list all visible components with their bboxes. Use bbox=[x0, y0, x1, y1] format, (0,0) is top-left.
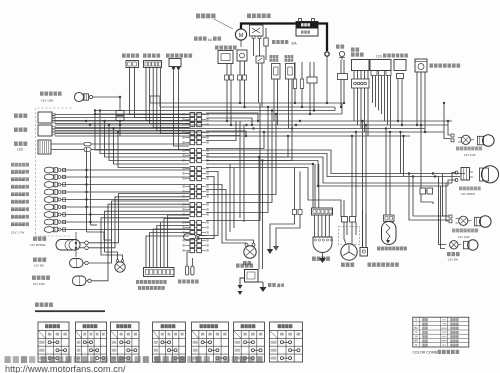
label: fuse box 2 bbox=[285, 55, 294, 62]
left rear turn lamp bbox=[449, 215, 491, 227]
label: ground (frame) bbox=[268, 283, 284, 288]
inline diodes bbox=[51, 142, 190, 151]
indicator lamp: gear bbox=[11, 215, 61, 227]
wire feeds horn right bbox=[240, 121, 244, 222]
indicator lamp: rpm bbox=[11, 222, 61, 234]
wire thick starter/battery cable bbox=[241, 24, 327, 52]
turn indicator relay bbox=[415, 59, 427, 132]
label: front brake switch bbox=[166, 54, 192, 58]
wire lamp8 to connector column bbox=[61, 220, 190, 223]
fuse box 2 bbox=[286, 64, 295, 133]
label: fuse box 1 bbox=[270, 55, 279, 62]
label: ignition coil bbox=[236, 264, 253, 268]
wire position lamp bbox=[88, 201, 189, 263]
svg-text:LED: LED bbox=[17, 148, 24, 152]
label: left rear turn lamp bbox=[452, 229, 478, 240]
starter motor M bbox=[235, 29, 246, 47]
label: COLOR COMB bbox=[413, 350, 460, 355]
wire relay pins down bbox=[254, 39, 260, 57]
wire bus upper loop bbox=[95, 96, 342, 114]
wire lamp2 to connector column bbox=[61, 175, 190, 178]
label: headlight bbox=[30, 237, 46, 248]
label: licheng-biao (speedometer) bbox=[14, 114, 27, 118]
headlight bbox=[56, 232, 88, 257]
position lamp bbox=[70, 259, 89, 268]
wire lamp7 to connector column bbox=[61, 213, 190, 216]
svg-text:12V 21W: 12V 21W bbox=[33, 282, 45, 286]
wire lamp5 to connector column bbox=[61, 198, 190, 201]
svg-text:B: B bbox=[415, 343, 417, 347]
label: kaiguan (switch) bbox=[336, 45, 344, 49]
switch table: ignition switch bbox=[38, 322, 69, 362]
connector block right of fuses bbox=[307, 62, 317, 114]
wires from CDI bbox=[373, 76, 391, 129]
wire feeds gear switch bbox=[315, 164, 319, 208]
wire feeds magneto/pulse bbox=[344, 121, 366, 248]
svg-text:BR/W: BR/W bbox=[441, 341, 448, 343]
handlebar switch connector bbox=[144, 268, 175, 277]
switch table: pass switch bbox=[270, 322, 303, 362]
wires headlight bbox=[88, 194, 189, 248]
svg-text:M: M bbox=[239, 33, 243, 39]
wire lamp6 to connector column bbox=[61, 205, 190, 208]
wire lamp4 to connector column bbox=[61, 190, 190, 193]
label: turn signal relay bbox=[383, 54, 408, 58]
watermark url bbox=[5, 364, 126, 373]
svg-text:12V 21W: 12V 21W bbox=[464, 153, 476, 157]
label: right rear turn lamp bbox=[456, 147, 482, 158]
label: jifei 6A switch bbox=[194, 37, 221, 43]
fuse box 1 bbox=[272, 64, 281, 126]
label: ignition pulse generator bbox=[368, 263, 399, 267]
brake tail lamp bbox=[455, 166, 499, 183]
label: turn/dimmer/pass/horn switch bbox=[136, 280, 167, 290]
wire junctions bbox=[75, 96, 449, 249]
small switch symbol bbox=[338, 51, 348, 107]
wire lamp9 to connector column bbox=[61, 228, 190, 231]
wire bus drops to left fan bbox=[95, 111, 189, 168]
label: yibiao-deng LED (meter lamps) bbox=[14, 142, 27, 152]
svg-text:12V 5W: 12V 5W bbox=[448, 258, 458, 262]
fuel sensor unit bbox=[218, 51, 234, 126]
svg-text:G: G bbox=[415, 317, 417, 321]
svg-text:BR: BR bbox=[414, 339, 418, 343]
dashed instrument cluster outline bbox=[36, 108, 72, 236]
label: fuel sensor unit bbox=[215, 46, 237, 50]
turn signal relay bbox=[394, 60, 406, 126]
wire left vertical bus bbox=[87, 148, 113, 240]
watermark line 1 bbox=[5, 356, 263, 363]
gear position switch bbox=[313, 215, 333, 253]
main key switch bbox=[237, 50, 247, 107]
wires horn left bbox=[101, 211, 189, 259]
switch table: kill switch bbox=[76, 322, 107, 362]
cable ring terminal bbox=[325, 52, 329, 103]
wire feeds ignition coil bbox=[249, 157, 263, 269]
small pilot lamp bbox=[184, 234, 207, 240]
indicator lamp: temp bbox=[11, 207, 61, 219]
wires speedometer bbox=[55, 115, 190, 124]
ignition pulse generator bbox=[360, 210, 368, 256]
svg-text:G/Y: G/Y bbox=[442, 319, 446, 321]
svg-text:BU/W: BU/W bbox=[441, 328, 448, 330]
wire bus main harness bbox=[55, 121, 452, 136]
connector 2P center-bottom bbox=[270, 168, 302, 250]
indicator lamp: right turn bbox=[11, 185, 61, 197]
svg-text:30A: 30A bbox=[291, 42, 298, 46]
license plate lamp bbox=[450, 240, 478, 250]
meter lamp unit bbox=[38, 140, 51, 154]
wire from left front turn lamp bbox=[93, 97, 120, 111]
switch table: starter switch bbox=[111, 322, 140, 362]
svg-text:12V 5W: 12V 5W bbox=[34, 264, 44, 268]
label: dianhuo switch bbox=[122, 54, 139, 58]
svg-text:Y/R: Y/R bbox=[442, 324, 446, 326]
battery bbox=[296, 19, 318, 37]
label: regulator rectifier bbox=[351, 48, 364, 57]
svg-text:O: O bbox=[415, 330, 417, 334]
ignition coil bbox=[238, 270, 259, 296]
regulator rectifier bbox=[352, 60, 370, 89]
label: turn indicator relay bbox=[430, 64, 461, 68]
wires from rectifier bbox=[354, 88, 368, 136]
indicator lamp: neutral bbox=[11, 177, 61, 189]
svg-text:12V 10W: 12V 10W bbox=[41, 99, 54, 103]
svg-text:B/Y: B/Y bbox=[443, 345, 447, 347]
label: qidong switch bbox=[143, 54, 160, 58]
fuel meter bbox=[38, 125, 55, 136]
clutch switch bbox=[186, 252, 195, 275]
wires from ignition switch bbox=[130, 68, 190, 118]
indicator lamp: high beam bbox=[11, 163, 61, 175]
wires from brake switch bbox=[174, 71, 190, 150]
svg-text:Y: Y bbox=[415, 322, 417, 326]
inline connector 2P bbox=[116, 111, 124, 137]
svg-text:12V 21W: 12V 21W bbox=[458, 235, 470, 239]
wire feeds side sensor bbox=[386, 129, 390, 216]
wire column to handlebar connector bbox=[146, 215, 189, 268]
starter relay bbox=[250, 25, 264, 39]
wire column to right risers bbox=[202, 103, 293, 243]
ignition switch connector bbox=[126, 61, 139, 68]
indicator lamp: fuel bbox=[11, 200, 61, 212]
front left small turn lamp bbox=[73, 276, 92, 286]
right rear turn lamp bbox=[451, 134, 494, 146]
svg-text:W/G: W/G bbox=[442, 336, 447, 338]
starter switch connector bbox=[144, 61, 162, 68]
label: qidong-jidianqi (starter relay) bbox=[247, 14, 271, 19]
svg-text:12V 18/5W: 12V 18/5W bbox=[461, 192, 475, 196]
wires fuel meter bbox=[55, 128, 190, 134]
color code table bbox=[413, 317, 469, 347]
main fuse 30A bbox=[264, 28, 298, 60]
label: horn bbox=[243, 261, 251, 265]
fuse pair bbox=[293, 62, 303, 107]
svg-text:12V 1.7W: 12V 1.7W bbox=[11, 230, 24, 234]
horn right bbox=[244, 243, 256, 258]
indicator lamp: left turn bbox=[11, 170, 61, 182]
label: gear switch bbox=[312, 257, 330, 261]
CDI unit bbox=[370, 55, 391, 76]
wire tail lamp feeds bbox=[448, 173, 460, 187]
svg-text:CDI: CDI bbox=[376, 55, 382, 59]
speedometer bbox=[38, 112, 55, 123]
svg-text:http://www.motorfans.com.cn/: http://www.motorfans.com.cn/ bbox=[5, 364, 126, 373]
label: brake tail lamp bbox=[459, 187, 481, 197]
aux switch under relay bbox=[256, 56, 264, 107]
central multi-connector column bbox=[185, 113, 206, 253]
switch table: horn switch bbox=[234, 322, 265, 362]
front brake light switch bbox=[169, 59, 181, 72]
switch table: turn signal switch bbox=[192, 322, 229, 362]
label: ranyou-biao (fuel meter) bbox=[14, 128, 27, 132]
wire color code ticks bbox=[183, 113, 209, 252]
label: continuity switch tables bbox=[35, 303, 105, 313]
side stand position sensor bbox=[382, 215, 397, 245]
label: front small turn lamp bbox=[32, 276, 50, 287]
wire fan right bbox=[206, 150, 465, 217]
left front turn lamp bbox=[74, 92, 92, 101]
label: qidong-dianji (starter motor) bbox=[196, 14, 233, 30]
wire front small turn lamp bbox=[91, 204, 189, 281]
gear position switch connector bbox=[312, 208, 333, 215]
indicator lamp: oil bbox=[11, 192, 61, 204]
label: left front turn lamp bbox=[40, 92, 62, 103]
horn left bbox=[115, 260, 125, 273]
label: side stand sensor bbox=[377, 247, 407, 251]
label: license plate lamp bbox=[447, 252, 460, 262]
label: position lamp bbox=[33, 258, 46, 268]
svg-text:12V 35/35W: 12V 35/35W bbox=[30, 243, 46, 247]
inline connector rear bbox=[420, 188, 433, 194]
label: magneto bbox=[341, 263, 354, 267]
label: clutch switch bbox=[178, 280, 199, 284]
magneto bbox=[339, 217, 360, 261]
svg-text:COLOR COMB: COLOR COMB bbox=[413, 351, 438, 355]
wire lamp3 to connector column bbox=[61, 183, 190, 186]
wire lamp1 to connector column bbox=[61, 168, 190, 171]
switch table: dimmer switch bbox=[153, 322, 186, 362]
svg-text:BU: BU bbox=[414, 326, 418, 330]
wire rear feeds vertical bbox=[401, 103, 451, 249]
ground arrow center-bottom bbox=[267, 246, 279, 254]
ground (frame) at ignition coil bbox=[258, 282, 267, 292]
wires from starter switch bbox=[146, 68, 189, 134]
ground at gear switch bbox=[319, 253, 326, 263]
